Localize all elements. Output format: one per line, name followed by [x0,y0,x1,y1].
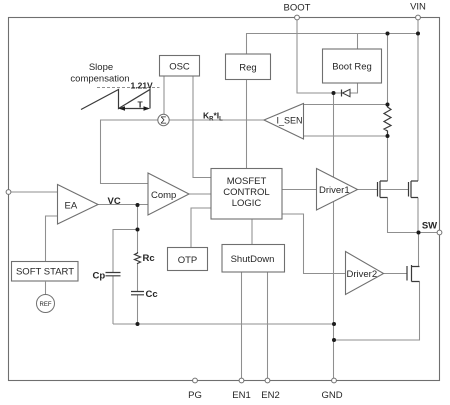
svg-text:Driver1: Driver1 [319,185,350,196]
wire: Cp branch top [113,230,138,273]
current sense resistor [384,105,391,137]
svg-text:1.21V: 1.21V [131,81,154,91]
terminal SW [437,230,442,235]
wire: diode to Boot Reg bottom [350,83,358,93]
svg-text:LOGIC: LOGIC [232,198,262,209]
MOSFET control logic block [211,169,282,220]
wire: Reg bottom to control logic [246,80,248,169]
wire: VIN drop x=418 [417,18,419,182]
svg-text:CONTROL: CONTROL [223,187,269,198]
svg-text:Comp: Comp [151,190,176,201]
svg-text:Cp: Cp [93,271,106,282]
junction: Cp branch split [136,228,140,232]
svg-text:REF: REF [40,302,52,308]
wire: Cc bottom to ground bus [137,295,139,324]
terminal EN1 [239,378,244,383]
terminal VIN [416,15,421,20]
wire: M2 source drop [417,198,419,233]
wire: EA output VC to Comp lower input [98,204,148,206]
svg-text:OTP: OTP [178,255,198,266]
junction: VC node [136,203,140,207]
junction: sense resistor bottom tap [386,134,390,138]
junction: VIN rail meets VIN drop [416,32,420,36]
svg-text:EN1: EN1 [232,390,250,401]
svg-text:GND: GND [321,390,342,401]
current sense amp I_SEN [264,104,304,140]
wire: VC node down to compensation [137,205,139,252]
wire: ShutDown to EN2 terminal [267,272,269,380]
wire: boot net down to Driver1 top [333,93,335,177]
driver 1 [317,169,358,211]
svg-text:I_SEN: I_SEN [277,116,303,126]
compensation capacitor Cp [106,273,121,276]
wire: ShutDown to EN1 terminal [241,272,243,380]
wire: Driver2 to M3 gate [384,273,408,275]
junction: sense resistor top tap [386,103,390,107]
svg-text:Reg: Reg [239,63,256,74]
soft start block [12,262,79,282]
wire: Cp bottom [112,276,114,324]
svg-text:Cc: Cc [146,289,158,300]
wire: M3 source to ground return [334,282,420,341]
terminal GND [332,378,337,383]
compensation resistor Rc [135,252,141,264]
svg-text:Rc: Rc [143,253,155,264]
wire: Comp output to control logic [189,193,211,195]
svg-text:VC: VC [108,196,121,207]
bootstrap diode [342,89,351,96]
MOSFET M1 (sense FET) [378,181,388,198]
terminal PG [193,378,198,383]
wire: M1 to M2 gate link [380,189,409,191]
junction: VIN rail to sense resistor branch [386,32,390,36]
slope compensation waveform [81,88,160,110]
error amplifier EA [58,185,99,225]
junction: boot net tap on diode wire [332,91,336,95]
wire: Driver1 to M1 gate [358,189,378,191]
wire: compensation ground bus [113,323,334,325]
wire: SW down to M3 drain [418,233,420,267]
MOSFET M3 (low side) [407,265,420,282]
svg-text:SOFT START: SOFT START [16,267,74,278]
boot regulator Boot Reg [323,49,382,83]
wire: SOFT START to EA lower input [46,216,58,262]
svg-text:EN2: EN2 [261,390,279,401]
wire: control logic to ShutDown [251,219,253,245]
junction: ground bus meets GND drop [332,322,336,326]
wire: FB terminal to EA upper input [9,191,58,193]
MOSFET M2 (main high side) [409,181,419,198]
compensation capacitor Cc [131,292,144,295]
svg-text:VIN: VIN [410,2,426,13]
regulator Reg [226,54,271,80]
junction: Cc bottom on ground bus [136,322,140,326]
wire: sense resistor bottom to M1 drain [387,136,389,181]
wire: OSC to summer [163,76,165,114]
wire: Rc to Cc [137,264,139,291]
wire: Driver1 bottom down to GND terminal [333,202,335,381]
wire: control logic to Driver2 [282,214,346,274]
period T arrow [119,106,151,111]
wire: OTP to control logic [191,208,211,248]
terminal EN2 [265,378,270,383]
oscillator OSC [160,56,200,77]
wire: Boot Reg top to VIN rail [357,34,359,50]
shutdown block [222,245,285,273]
wire: OSC to MOSFET control logic [193,76,211,178]
comparator Comp [148,173,189,215]
svg-text:Driver2: Driver2 [347,269,378,280]
wire: VIN rail to sense resistor top [387,34,389,105]
svg-text:BOOT: BOOT [284,3,311,14]
svg-text:PG: PG [188,390,202,401]
summing junction [158,114,169,126]
svg-text:T: T [138,100,144,110]
wire: I_SEN upper tap [304,104,388,106]
OTP block [168,248,208,271]
svg-text:OSC: OSC [169,62,190,73]
junction: SW node [417,231,421,235]
wire: Reg top to VIN rail (y=33.5) [247,34,419,55]
wire: I_SEN output to summer [169,119,264,121]
wire: M1 source to SW rail [388,198,440,233]
svg-text:Slope: Slope [89,62,113,73]
junction: M3 source return meets GND drop [332,338,336,342]
svg-text:compensation: compensation [70,74,129,85]
driver 2 [346,252,384,295]
wire: I_SEN lower tap [304,135,388,137]
wire: control logic to Driver1 [282,189,317,191]
wire: BOOT drop to diode [297,18,342,94]
wire: summer output to Comp upper input [101,120,158,184]
svg-text:Σ: Σ [160,116,166,127]
terminal FB (left) [6,190,11,195]
svg-text:SW: SW [422,221,437,232]
svg-text:EA: EA [65,201,78,212]
svg-text:ShutDown: ShutDown [231,254,275,265]
svg-text:MOSFET: MOSFET [227,176,267,187]
reference REF [37,281,55,313]
svg-text:Boot Reg: Boot Reg [332,62,372,73]
terminal BOOT [295,15,300,20]
